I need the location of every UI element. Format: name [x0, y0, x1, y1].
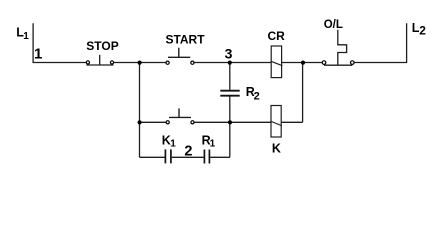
- svg-text:O/L: O/L: [324, 19, 343, 31]
- svg-text:CR: CR: [268, 29, 286, 43]
- svg-text:1: 1: [23, 31, 29, 42]
- svg-text:3: 3: [225, 46, 233, 62]
- svg-text:2: 2: [419, 24, 426, 38]
- svg-text:2: 2: [184, 143, 192, 159]
- svg-text:1: 1: [34, 46, 42, 63]
- svg-text:STOP: STOP: [86, 39, 118, 53]
- svg-text:START: START: [165, 32, 205, 46]
- svg-text:1: 1: [170, 138, 176, 149]
- svg-text:2: 2: [254, 91, 260, 103]
- svg-text:1: 1: [210, 138, 216, 149]
- svg-text:K: K: [272, 141, 281, 155]
